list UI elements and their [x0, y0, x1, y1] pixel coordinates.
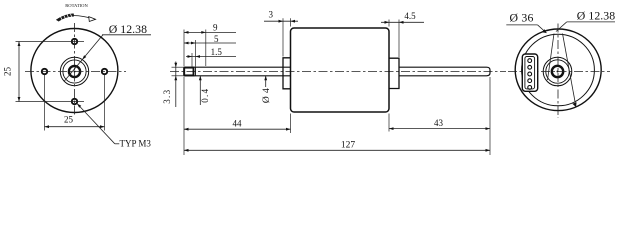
svg-text:Ø 12.38: Ø 12.38 [577, 8, 615, 22]
front shaft top line [184, 66, 291, 68]
extension line bottom hole to left dim [16, 101, 85, 103]
dimension 44 [184, 128, 291, 130]
extension line right hole down [104, 75, 106, 131]
extension line at 5mm [195, 40, 197, 67]
rotation ribbon arrow [58, 16, 92, 19]
terminal connector block inner [525, 57, 535, 89]
extension line left hole down [44, 75, 46, 131]
front shaft hole [69, 66, 80, 77]
svg-text:Ø 12.38: Ø 12.38 [109, 22, 147, 36]
dimension Ø4 vertical [265, 76, 267, 87]
front vertical centerline [74, 23, 76, 116]
svg-text:ROTATION: ROTATION [65, 3, 88, 8]
extension body right down [388, 114, 390, 132]
extension body left down [290, 114, 292, 134]
mounting hole top [72, 39, 77, 44]
svg-text:44: 44 [233, 118, 243, 128]
svg-text:3.3: 3.3 [162, 89, 172, 104]
svg-text:43: 43 [434, 118, 444, 128]
rear outer circle [515, 29, 601, 111]
mounting hole right [102, 69, 107, 74]
dimension 4.5 extension lines [388, 20, 390, 27]
svg-text:Ø 4: Ø 4 [262, 88, 272, 103]
svg-text:25: 25 [64, 115, 74, 125]
front label underline [102, 34, 151, 36]
rear vertical centerline [557, 24, 559, 119]
front label leader to hub [64, 35, 103, 82]
shaft flat (milled) heavy box [184, 68, 193, 76]
terminal pin 3 [528, 72, 532, 76]
middle centerline axis [170, 71, 506, 73]
front center dot [74, 71, 76, 73]
dimension 25 vertical line [18, 42, 20, 102]
dimension 4.5 [381, 21, 424, 23]
rear leader line through hub left [548, 34, 555, 81]
svg-text:1.5: 1.5 [211, 47, 223, 57]
front bearing boss [283, 58, 291, 89]
terminal pin 2 [528, 65, 532, 69]
rear label Ø 36 leader [538, 25, 547, 33]
svg-text:Ø 36: Ø 36 [510, 11, 534, 25]
common left extension line (tip) [183, 30, 185, 67]
mounting hole left [42, 69, 47, 74]
rear hub boss circle [543, 57, 572, 86]
dimension 1.5 [186, 56, 236, 58]
extension line at 9mm [205, 30, 207, 67]
motor body rectangle [291, 28, 390, 112]
rear label Ø 36 underline [506, 24, 537, 26]
extension line at flat end [191, 53, 193, 67]
rear label Ø 12.38 underline [567, 21, 615, 23]
svg-text:9: 9 [213, 23, 218, 33]
shaft tip face [183, 67, 185, 76]
rear shaft hole [552, 66, 563, 77]
shaft line at 5mm point [195, 67, 197, 76]
front horizontal centerline [25, 71, 126, 73]
rear hub chamfer ring [546, 60, 569, 83]
front hub boss circle Ø12.38 [60, 57, 88, 85]
dimension 127 [184, 149, 490, 151]
front hub chamfer ring [63, 60, 86, 83]
dimension 43 [389, 128, 490, 130]
dimension 3 extension lines [282, 18, 284, 56]
rear leader line to outer circle right [563, 34, 577, 108]
rear horizontal centerline [508, 71, 610, 73]
svg-text:25: 25 [3, 67, 13, 77]
terminal pin 1 [528, 59, 532, 63]
svg-text:127: 127 [341, 141, 356, 151]
TYP M3 leader [77, 104, 115, 144]
rear center dot [557, 71, 559, 73]
dimension 9 [184, 31, 236, 33]
svg-text:3: 3 [268, 10, 273, 20]
dimension 0.4 vertical [199, 76, 201, 105]
dimension 3 [264, 20, 298, 22]
svg-text:4.5: 4.5 [404, 11, 416, 21]
extension line top hole to left dim [16, 41, 85, 43]
extension rear tip down [489, 77, 491, 155]
terminal pin 4 [528, 79, 532, 83]
svg-text:0.4: 0.4 [200, 88, 210, 103]
svg-text:TYP M3: TYP M3 [120, 139, 152, 149]
rear label Ø 12.38 leader kink [556, 22, 567, 32]
rear bearing boss [389, 58, 399, 88]
rear endcap inner circle [522, 34, 595, 106]
dimension 5 [184, 42, 236, 44]
terminal pin 5 [528, 86, 532, 90]
terminal connector block outer [522, 54, 537, 91]
rear shaft [399, 67, 490, 76]
mounting hole bottom [72, 99, 77, 104]
dimension 3.3 vertical [175, 62, 177, 108]
svg-text:5: 5 [214, 34, 219, 44]
front shaft bottom line [184, 75, 291, 77]
dimension 25 bottom line [45, 126, 105, 128]
front view body outline circle [31, 29, 118, 113]
